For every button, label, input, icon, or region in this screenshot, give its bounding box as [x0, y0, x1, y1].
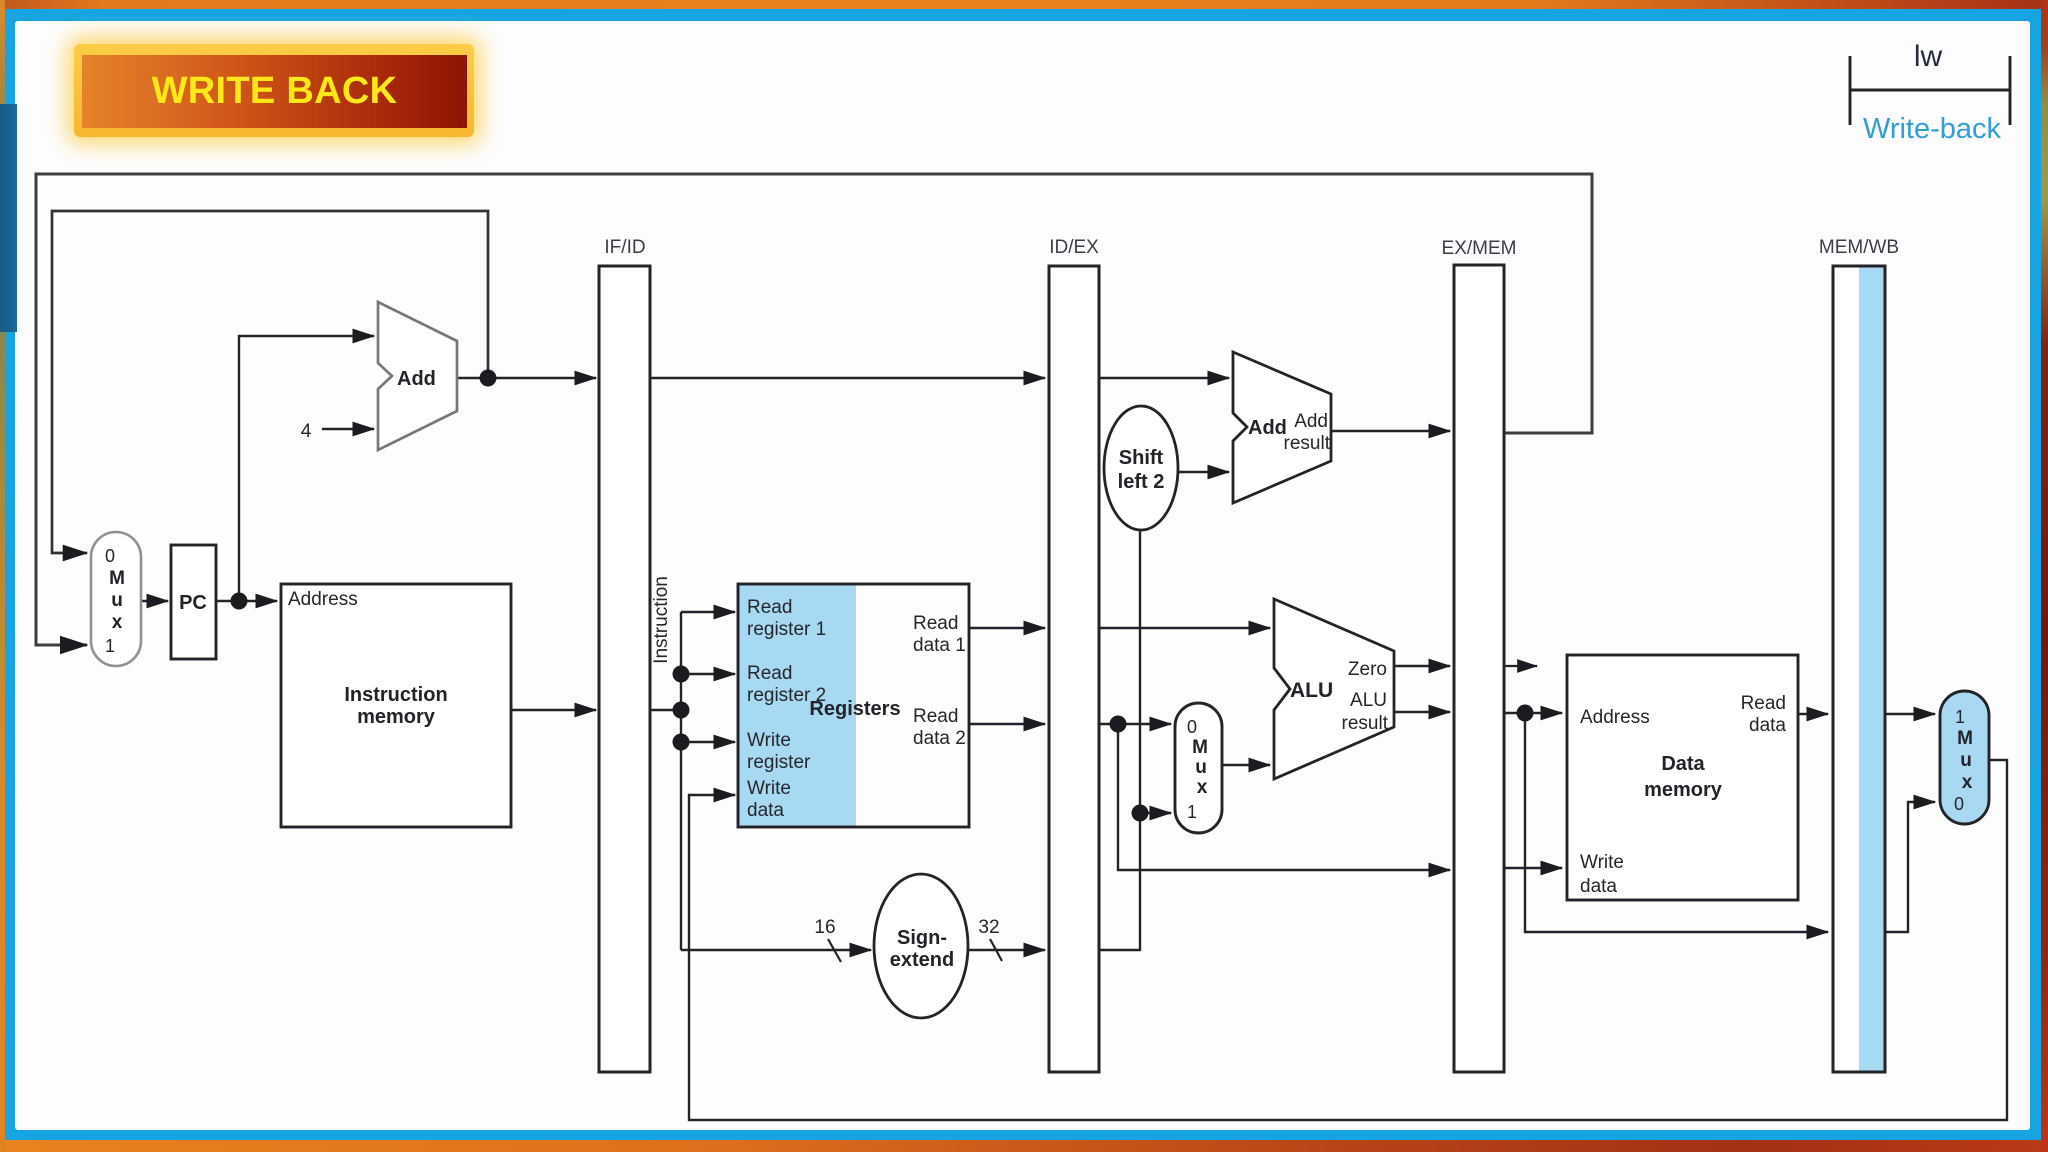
ALU	[1274, 599, 1394, 779]
wire: PC+4 from IF/ID to ID/EX	[650, 377, 1045, 379]
svg-text:data: data	[747, 800, 784, 821]
wire: write data from EX/MEM to Data memory	[1504, 867, 1562, 869]
svg-text:EX/MEM: EX/MEM	[1442, 238, 1517, 259]
wire: PC output to instruction memory Address	[216, 600, 277, 602]
wire: Read data 1 to ID/EX	[969, 627, 1045, 629]
wire: MEM/WB read data to WB-mux input 1	[1885, 713, 1935, 715]
memory: Data memory	[1567, 655, 1798, 900]
wire: immediate from ID/EX up to Shift left 2	[1099, 530, 1140, 950]
junction: Add output node	[480, 370, 497, 387]
wire: lw timeline right tick	[2009, 56, 2012, 125]
wire: Read data 2 from ID/EX to ALU-mux input 0	[1099, 723, 1171, 725]
svg-text:u: u	[1960, 750, 1972, 771]
svg-text:Shift: Shift	[1119, 447, 1164, 469]
svg-text:u: u	[111, 590, 123, 611]
wire: PC+4 from Add output to PC-mux input 0	[52, 211, 488, 553]
svg-text:M: M	[109, 568, 125, 589]
svg-text:4: 4	[301, 421, 312, 442]
wire: bus to Sign-extend	[681, 949, 871, 951]
svg-text:M: M	[1957, 728, 1973, 749]
wire: PC value up to Add input 1	[239, 336, 374, 601]
svg-text:32: 32	[978, 917, 999, 938]
slash: 16-bit bus	[828, 939, 841, 962]
svg-text:Data: Data	[1661, 753, 1705, 775]
svg-text:16: 16	[814, 917, 835, 938]
pipeline register ID/EX	[1049, 237, 1099, 1072]
svg-text:0: 0	[105, 546, 115, 566]
svg-text:Read: Read	[747, 663, 792, 684]
svg-text:0: 0	[1954, 794, 1964, 814]
wire: Read data 2 branch down to EX/MEM	[1118, 724, 1450, 870]
junction: read data 2 branch node	[1110, 716, 1127, 733]
wire: PC+4 from ID/EX to Add-result adder	[1099, 377, 1229, 379]
junction: instruction bus at write register	[673, 734, 690, 751]
svg-text:Add: Add	[1248, 417, 1287, 439]
wire: Read data 1 from ID/EX to ALU input 1	[1099, 627, 1270, 629]
adder Add (PC+4)	[378, 302, 457, 450]
wire: ALU Zero to EX/MEM	[1394, 665, 1450, 667]
svg-text:Read: Read	[913, 706, 958, 727]
wire: bus to Read register 1	[681, 611, 735, 613]
wire: Read data from Data memory to MEM/WB	[1798, 713, 1828, 715]
svg-text:M: M	[1192, 737, 1208, 758]
svg-text:Write: Write	[747, 778, 791, 799]
svg-text:Registers: Registers	[809, 698, 900, 720]
svg-text:result: result	[1284, 433, 1331, 454]
memory: Instruction memory	[281, 584, 511, 827]
svg-text:PC: PC	[179, 592, 207, 614]
svg-text:left 2: left 2	[1118, 471, 1165, 493]
svg-text:MEM/WB: MEM/WB	[1819, 237, 1899, 258]
svg-text:Write: Write	[1580, 852, 1624, 873]
wire: ALU-mux output to ALU input 2	[1222, 764, 1270, 766]
wire: MEM/WB ALU result to WB-mux input 0	[1885, 802, 1935, 932]
wire: ALU result from EX/MEM to Data memory Address	[1504, 712, 1562, 714]
svg-text:IF/ID: IF/ID	[604, 237, 645, 258]
wire: constant 4 to Add input 2	[322, 428, 374, 430]
svg-text:data: data	[1580, 876, 1617, 897]
adder: Add result	[1233, 352, 1331, 503]
svg-text:register 1: register 1	[747, 619, 826, 640]
wire: bus to Write register	[681, 741, 735, 743]
wire: ALU result to EX/MEM	[1394, 711, 1450, 713]
svg-text:ALU: ALU	[1350, 690, 1387, 711]
wire: Shift left 2 output to Add-result adder	[1178, 471, 1229, 473]
svg-text:1: 1	[105, 636, 115, 656]
svg-text:Read: Read	[747, 597, 792, 618]
svg-text:x: x	[1197, 777, 1208, 798]
title banner WRITE BACK	[74, 44, 474, 137]
svg-text:Zero: Zero	[1348, 659, 1387, 680]
junction: ALU result branch node	[1517, 705, 1534, 722]
wire: Read data 2 to ID/EX	[969, 723, 1045, 725]
svg-text:u: u	[1195, 757, 1207, 778]
svg-text:Instruction: Instruction	[651, 576, 672, 664]
wire: lw timeline left tick	[1849, 56, 1852, 125]
svg-text:data: data	[1749, 715, 1786, 736]
svg-text:Write: Write	[747, 730, 791, 751]
svg-text:ID/EX: ID/EX	[1049, 237, 1099, 258]
svg-text:data 1: data 1	[913, 635, 966, 656]
svg-text:Read: Read	[913, 613, 958, 634]
svg-text:0: 0	[1187, 717, 1197, 737]
svg-text:Read: Read	[1741, 693, 1786, 714]
pipeline register EX/MEM	[1442, 238, 1517, 1072]
wire: write-back data from WB-mux to Registers Write data	[689, 760, 2007, 1120]
svg-text:extend: extend	[890, 949, 954, 971]
pipeline register IF/ID	[599, 237, 650, 1072]
wire: instruction from IF/ID to instruction bus	[650, 709, 681, 711]
svg-text:ALU: ALU	[1290, 679, 1333, 702]
wire: lw timeline horizontal bar	[1850, 89, 2010, 92]
wire: instruction memory output to IF/ID	[511, 709, 596, 711]
svg-text:1: 1	[1187, 802, 1197, 822]
pipeline register MEM/WB	[1819, 237, 1899, 1072]
ellipse: Sign-extend	[874, 874, 968, 1018]
wire: bus to Read register 2	[681, 673, 735, 675]
svg-text:register: register	[747, 752, 811, 773]
mux M3: write-back mux	[1940, 691, 1989, 824]
wire: Add output to IF/ID	[457, 377, 596, 379]
svg-text:Address: Address	[1580, 707, 1650, 728]
wire: instruction bus vertical	[680, 612, 682, 950]
slash: 32-bit bus	[990, 939, 1002, 961]
wire: ALU result branch down to MEM/WB	[1525, 713, 1828, 932]
junction: instruction bus at read register 2	[673, 666, 690, 683]
junction: immediate branch node	[1132, 805, 1149, 822]
wire: Sign-extend output to ID/EX	[968, 949, 1045, 951]
svg-text:memory: memory	[1644, 779, 1723, 801]
junction: PC output node	[231, 593, 248, 610]
register PC	[171, 545, 216, 659]
svg-text:Add: Add	[397, 368, 436, 390]
register file: Registers	[738, 584, 969, 827]
decorative left blue stripe	[0, 104, 17, 332]
svg-text:x: x	[1962, 772, 1973, 793]
wire: Zero stub out of EX/MEM	[1504, 665, 1537, 667]
svg-text:data 2: data 2	[913, 728, 966, 749]
mux M2: ALU operand mux	[1175, 703, 1222, 833]
svg-text:lw: lw	[1914, 40, 1943, 73]
wire: immediate branch to ALU-mux input 1	[1140, 812, 1171, 814]
svg-text:Address: Address	[288, 589, 358, 610]
svg-text:memory: memory	[357, 706, 436, 728]
wire: Add result to EX/MEM	[1331, 430, 1450, 432]
svg-text:Add: Add	[1294, 411, 1328, 432]
ellipse: Shift left 2	[1104, 406, 1178, 530]
svg-text:Sign-: Sign-	[897, 927, 947, 949]
svg-text:Write-back: Write-back	[1863, 113, 2002, 145]
svg-text:Instruction: Instruction	[344, 684, 447, 706]
svg-text:1: 1	[1955, 707, 1965, 727]
mux M1: PC source mux	[91, 532, 141, 666]
svg-text:x: x	[112, 612, 123, 633]
wire: branch feedback from EX/MEM to PC-mux input 1	[36, 174, 1592, 645]
wire: PC-mux output to PC	[141, 600, 168, 602]
svg-text:result: result	[1342, 713, 1389, 734]
junction: instruction bus at incoming instruction	[673, 702, 690, 719]
